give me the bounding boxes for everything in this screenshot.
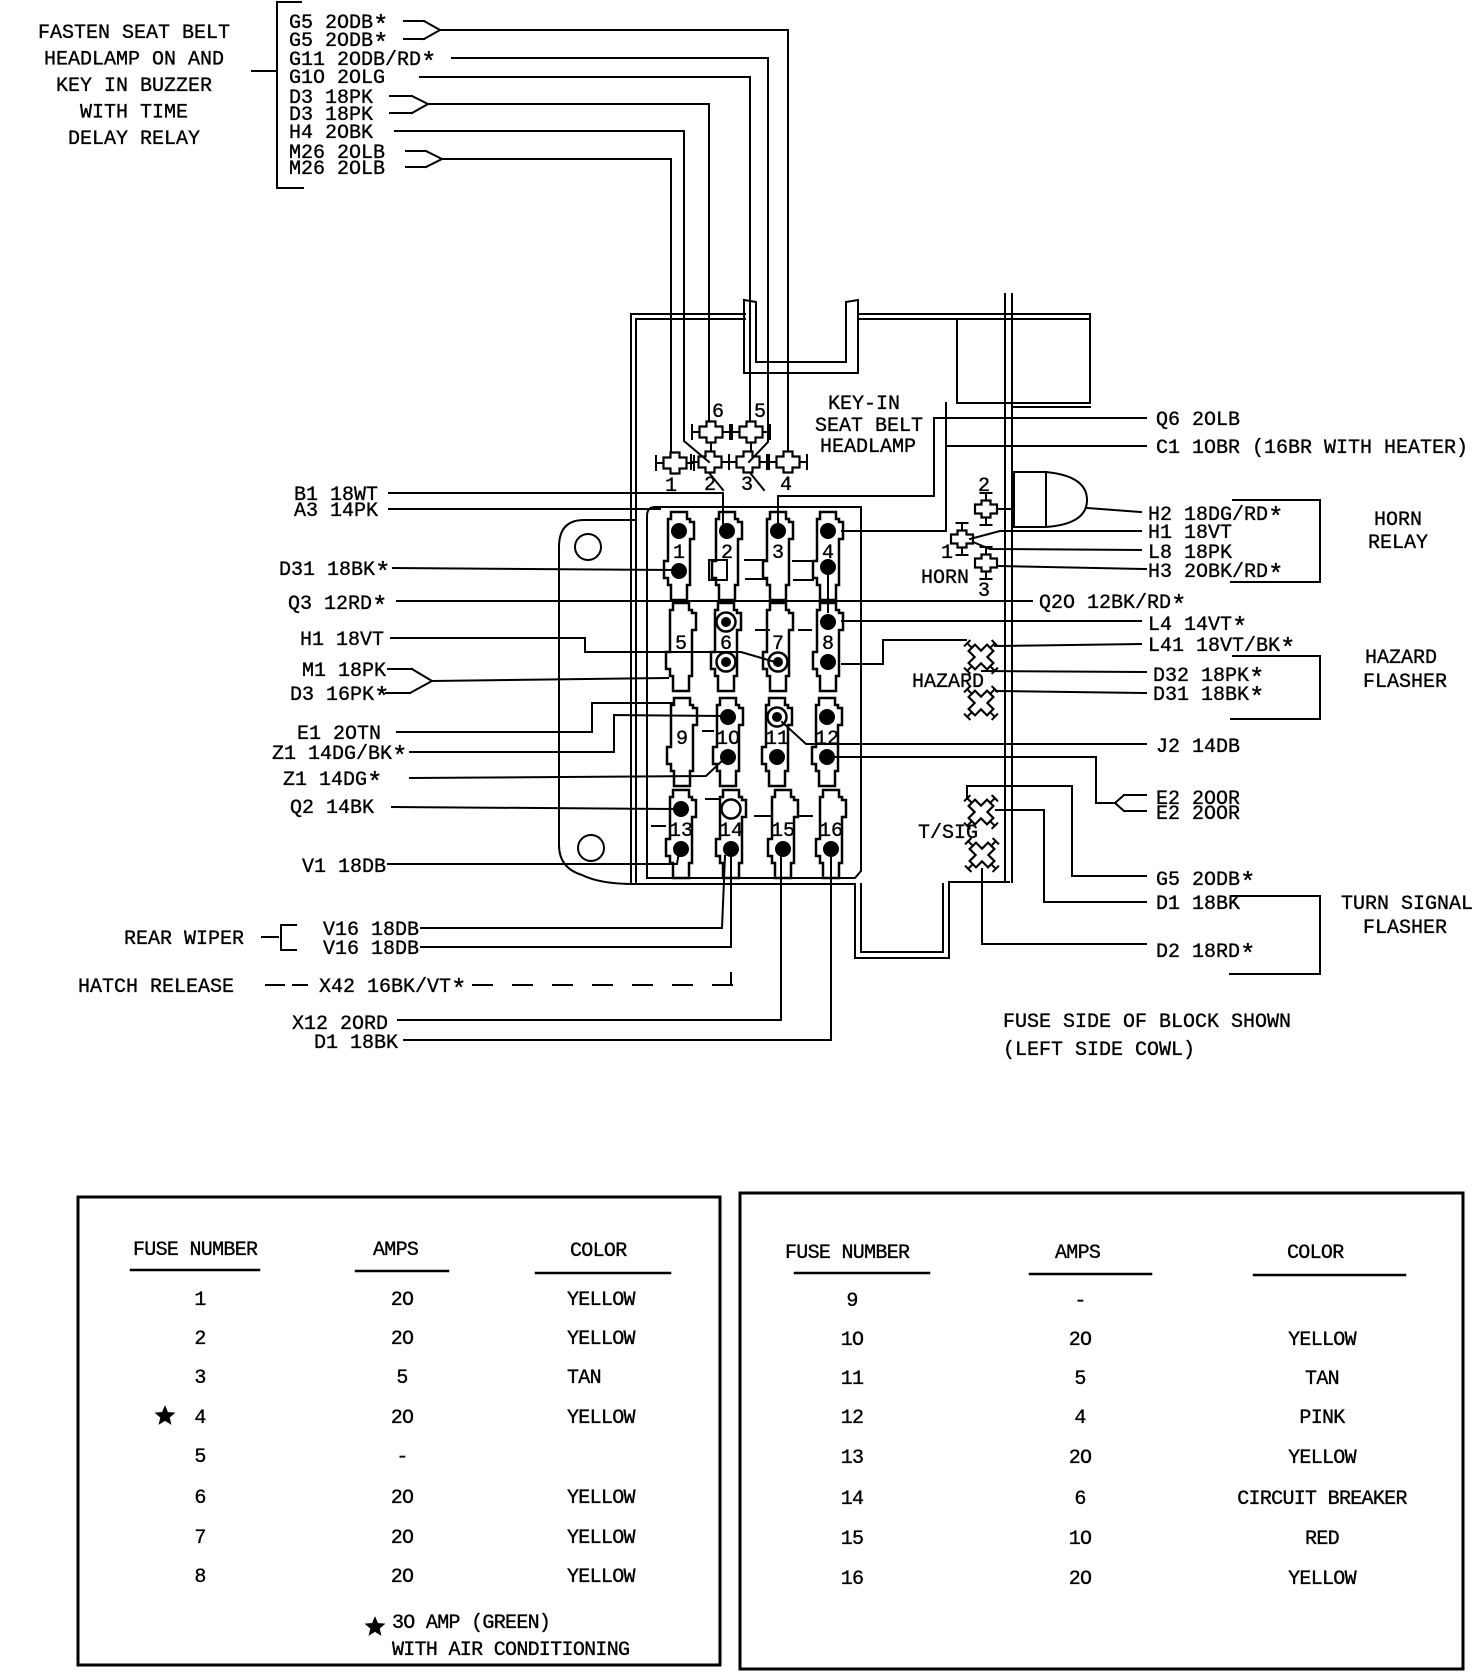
wire Z1 14DG/BK* to fuse 10 top	[410, 715, 724, 752]
wire M26 20LB pair to connector 1	[406, 151, 671, 452]
fuse 10 terminals and number	[716, 709, 740, 765]
svg-text:4: 4	[780, 474, 792, 497]
fuse 6 outline	[711, 603, 741, 691]
wire G5 20DB* right	[967, 786, 1146, 876]
connector turn signal flasher upper	[953, 784, 1008, 839]
svg-text:2: 2	[721, 542, 733, 565]
svg-text:FUSE NUMBER: FUSE NUMBER	[133, 1239, 258, 1262]
fuse 1 terminals and number	[671, 523, 687, 579]
fuse 15 terminals and number	[771, 820, 795, 857]
svg-text:YELLOW: YELLOW	[1288, 1329, 1357, 1352]
wire fuse11 top to J2 14DB	[782, 722, 1146, 744]
svg-text:13: 13	[669, 820, 693, 843]
wire Z1 14DG* to fuse 10 bottom	[410, 759, 724, 778]
svg-text:YELLOW: YELLOW	[567, 1487, 636, 1510]
wire B1 18WT to fuse 2 top	[389, 493, 723, 524]
node: TURN SIGNAL FLASHER label	[1341, 893, 1472, 940]
connector turn signal flasher lower	[954, 827, 1009, 882]
wire V16 18DB to fuse 14 a	[421, 856, 725, 928]
svg-text:Q6 2OLB: Q6 2OLB	[1156, 409, 1240, 432]
svg-text:A3 14PK: A3 14PK	[294, 500, 378, 523]
wire D31 18BK* right	[996, 691, 1146, 693]
fuse 13 terminals and number	[669, 801, 693, 857]
svg-text:YELLOW: YELLOW	[1288, 1568, 1357, 1591]
node: buzzer note text	[38, 22, 230, 151]
wire V16 18DB to fuse 14 b	[421, 856, 731, 947]
fuse 16 terminals and number	[819, 820, 843, 857]
svg-text:15: 15	[771, 820, 795, 843]
node: left wire labels B1..V1	[272, 484, 408, 879]
svg-text:12: 12	[841, 1407, 864, 1430]
svg-text:AMPS: AMPS	[1055, 1242, 1101, 1265]
svg-text:3: 3	[741, 474, 753, 497]
svg-text:1: 1	[941, 542, 953, 565]
svg-text:4: 4	[1074, 1407, 1085, 1430]
node: HORN label	[921, 567, 969, 590]
svg-text:YELLOW: YELLOW	[567, 1289, 636, 1312]
svg-text:DELAY RELAY: DELAY RELAY	[68, 128, 200, 151]
svg-text:CIRCUIT BREAKER: CIRCUIT BREAKER	[1237, 1488, 1407, 1511]
wire L41 label line	[995, 644, 1141, 646]
wire H3 20BK/RD*	[998, 566, 1146, 569]
svg-text:HEADLAMP: HEADLAMP	[820, 436, 916, 459]
fuse 8 outline	[813, 603, 843, 691]
svg-text:5: 5	[194, 1446, 205, 1469]
node: hazard bracket	[1231, 656, 1320, 719]
fuse 14 terminals and number	[719, 800, 743, 858]
connector pin 1 key-in	[656, 453, 694, 499]
svg-text:YELLOW: YELLOW	[1288, 1447, 1357, 1470]
fuse 4 outline	[813, 512, 843, 600]
wire H4 20BK to connector 2	[395, 131, 709, 462]
svg-text:2O: 2O	[1069, 1329, 1092, 1352]
fuse 2 outline	[709, 512, 742, 600]
svg-text:2: 2	[978, 475, 990, 498]
node: horn relay wire labels	[1148, 503, 1284, 590]
svg-text:7: 7	[772, 633, 784, 656]
node: HAZARD FLASHER label	[1363, 647, 1447, 694]
svg-text:16: 16	[841, 1568, 864, 1591]
node: turn signal bracket	[1230, 896, 1320, 974]
node: fuse block assembly boundary	[631, 294, 1090, 958]
svg-text:2O: 2O	[1069, 1447, 1092, 1470]
wire X42 16BK/VT* dashed	[473, 973, 732, 985]
wire Q2 14BK to fuse 13 top	[392, 807, 678, 809]
wire L8 18PK	[973, 542, 1141, 550]
fuse 3 outline	[763, 512, 793, 600]
fuse 8 terminals and number	[820, 614, 836, 670]
wire G10 20LG to connector 5	[420, 77, 750, 421]
svg-text:5: 5	[396, 1367, 407, 1390]
wire connector 5 to connector 3	[750, 443, 752, 451]
svg-text:RED: RED	[1305, 1528, 1339, 1551]
fuse 3 terminals and number	[770, 523, 786, 565]
svg-text:HAZARD: HAZARD	[912, 671, 984, 694]
node: fuse side note	[1003, 1011, 1291, 1062]
wire H2 18DG/RD*	[1087, 508, 1141, 512]
svg-text:HORN: HORN	[1374, 509, 1422, 532]
svg-text:5: 5	[754, 401, 766, 424]
svg-text:AMPS: AMPS	[373, 1239, 419, 1262]
svg-text:COLOR: COLOR	[1287, 1242, 1344, 1265]
fuse 7 terminals and number	[769, 633, 788, 672]
node: right fuse table	[740, 1193, 1463, 1669]
svg-text:YELLOW: YELLOW	[567, 1328, 636, 1351]
svg-text:FLASHER: FLASHER	[1363, 671, 1447, 694]
node: left fuse table	[78, 1197, 720, 1665]
svg-text:SEAT BELT: SEAT BELT	[815, 415, 923, 438]
svg-text:6: 6	[720, 633, 732, 656]
wire fuse12 bottom to E2 20OR pair	[836, 757, 1146, 811]
svg-text:KEY-IN: KEY-IN	[828, 393, 900, 416]
svg-text:8: 8	[822, 633, 834, 656]
wire X12 20RD to fuse 15	[398, 856, 781, 1020]
wire V1 18DB to fuse 13 bottom	[388, 852, 679, 864]
svg-text:1: 1	[194, 1289, 206, 1312]
svg-text:1: 1	[665, 475, 677, 498]
connector pin 3 horn	[975, 547, 997, 603]
svg-text:PINK: PINK	[1299, 1407, 1345, 1430]
wire D32 18PK*	[982, 671, 1146, 672]
svg-text:8: 8	[194, 1566, 205, 1589]
svg-text:2O: 2O	[391, 1527, 414, 1550]
svg-text:2: 2	[194, 1328, 205, 1351]
connector hazard flasher lower	[953, 675, 1008, 730]
connector pin 4 key-in	[769, 452, 807, 498]
svg-text:J2 14DB: J2 14DB	[1156, 736, 1240, 759]
fuse 1 outline	[664, 512, 694, 600]
svg-text:FLASHER: FLASHER	[1363, 917, 1447, 940]
svg-text:12: 12	[815, 728, 839, 751]
svg-text:KEY IN BUZZER: KEY IN BUZZER	[56, 75, 212, 98]
connector pin 2 key-in	[691, 452, 729, 498]
svg-text:2O: 2O	[391, 1328, 414, 1351]
wire E1 20TN to fuse 9 top	[397, 703, 672, 732]
svg-text:3: 3	[194, 1367, 205, 1390]
svg-text:HAZARD: HAZARD	[1365, 647, 1437, 670]
svg-text:14: 14	[719, 820, 743, 843]
wire fuse4 top to H1 18VT right	[842, 531, 1141, 539]
svg-text:14: 14	[841, 1488, 864, 1511]
fuse 5 outline	[666, 603, 696, 691]
node: fuse block mounting plate	[559, 520, 634, 884]
fuse 9 terminals and number	[676, 728, 688, 751]
svg-text:3O AMP (GREEN): 3O AMP (GREEN)	[392, 1612, 550, 1635]
node: HATCH RELEASE label	[78, 975, 467, 1005]
svg-text:YELLOW: YELLOW	[567, 1527, 636, 1550]
svg-text:FUSE SIDE OF BLOCK SHOWN: FUSE SIDE OF BLOCK SHOWN	[1003, 1011, 1291, 1034]
fuse 9 outline	[667, 698, 697, 786]
node: hazard wire labels	[1148, 613, 1296, 713]
wire connector 6 to connector 2	[710, 443, 712, 451]
svg-text:C1 1OBR (16BR WITH HEATER): C1 1OBR (16BR WITH HEATER)	[1156, 437, 1468, 460]
fuse 5 terminals and number	[675, 633, 687, 656]
wire D1 18BK right	[996, 810, 1146, 902]
svg-text:V16 18DB: V16 18DB	[323, 938, 419, 961]
svg-text:1: 1	[673, 542, 685, 565]
wire H1 18VT left to fuse 7 bottom	[391, 638, 775, 662]
svg-text:9: 9	[676, 728, 688, 751]
wire A3 14PK along panel top	[389, 508, 660, 510]
fuse 7 outline	[763, 603, 793, 691]
wire D3 18PK pair to connector 6	[390, 96, 709, 421]
node: T-SIG label	[918, 822, 978, 845]
svg-text:6: 6	[1074, 1488, 1085, 1511]
node: D1 18BK label left	[314, 1032, 398, 1055]
node: REAR WIPER label	[124, 925, 296, 951]
svg-text:TAN: TAN	[1305, 1368, 1339, 1391]
svg-text:16: 16	[819, 820, 843, 843]
svg-text:H1 18VT: H1 18VT	[300, 629, 384, 652]
wire G11 20DB/RD* to connector 3	[452, 58, 768, 462]
wire connector 3 to fuse 3	[751, 474, 778, 524]
fuse 12 outline	[812, 698, 842, 786]
svg-text:11: 11	[765, 728, 789, 751]
svg-text:(LEFT SIDE COWL): (LEFT SIDE COWL)	[1003, 1039, 1195, 1062]
connector pin 3 key-in	[729, 452, 767, 498]
svg-text:-: -	[396, 1446, 407, 1469]
fuse 10 outline	[713, 698, 743, 786]
svg-text:2O: 2O	[1069, 1568, 1092, 1591]
svg-text:3: 3	[772, 542, 784, 565]
wire C1 10BR feed	[842, 403, 1146, 664]
wire fuse8 top to L4 14VT*	[842, 620, 1141, 622]
svg-text:4: 4	[194, 1407, 205, 1430]
svg-text:HATCH RELEASE: HATCH RELEASE	[78, 976, 234, 999]
node: HAZARD label	[912, 671, 984, 694]
svg-text:V1 18DB: V1 18DB	[302, 856, 386, 879]
svg-text:13: 13	[841, 1447, 864, 1470]
svg-text:WITH AIR CONDITIONING: WITH AIR CONDITIONING	[392, 1639, 629, 1662]
node: wire group bracket	[252, 2, 303, 188]
fuse 13 outline	[666, 790, 696, 878]
svg-text:TURN SIGNAL: TURN SIGNAL	[1341, 893, 1472, 916]
svg-text:M1 18PK: M1 18PK	[302, 660, 386, 683]
svg-text:COLOR: COLOR	[570, 1240, 627, 1263]
connector pin 5 key-in	[732, 401, 770, 443]
svg-text:3: 3	[978, 580, 990, 603]
fuse 6 terminals and number	[717, 613, 736, 672]
svg-text:2O: 2O	[391, 1487, 414, 1510]
node: Q20 12BK/RD* label	[1039, 591, 1187, 621]
connector pin 6 key-in	[692, 401, 730, 443]
fuse 14 outline	[716, 790, 746, 878]
svg-text:1O: 1O	[841, 1329, 864, 1352]
fuse 15 outline	[768, 790, 798, 878]
svg-text:11: 11	[841, 1368, 864, 1391]
node: KEY-IN SEAT BELT HEADLAMP label	[815, 393, 923, 459]
wire Q3 12RD* fuse bus to Q20	[397, 600, 1032, 602]
svg-text:D1 18BK: D1 18BK	[1156, 893, 1240, 916]
svg-text:2O: 2O	[391, 1289, 414, 1312]
node: fuse panel rectangle	[647, 507, 861, 878]
svg-text:FASTEN SEAT BELT: FASTEN SEAT BELT	[38, 22, 230, 45]
fuse 12 terminals and number	[815, 709, 839, 765]
svg-text:4: 4	[822, 542, 834, 565]
svg-text:REAR WIPER: REAR WIPER	[124, 928, 244, 951]
svg-text:M26 2OLB: M26 2OLB	[289, 158, 385, 181]
svg-text:FUSE NUMBER: FUSE NUMBER	[785, 1242, 910, 1265]
node: X12 20RD label	[292, 1013, 388, 1036]
wire D1 18BK to fuse 16	[404, 856, 831, 1040]
svg-text:WITH TIME: WITH TIME	[80, 102, 188, 125]
svg-text:6: 6	[194, 1487, 205, 1510]
fuse 2 terminals and number	[719, 523, 735, 565]
svg-text:1O: 1O	[1069, 1528, 1092, 1551]
node: horn relay cavity	[1014, 472, 1087, 527]
node: left wire labels G5 G11 G10 D3 H4 M26	[289, 11, 437, 181]
wire D31 18BK* to fuse 1 bottom	[393, 568, 676, 570]
node: HORN RELAY label	[1368, 509, 1428, 555]
svg-text:15: 15	[841, 1528, 864, 1551]
fuse 16 outline	[816, 790, 846, 878]
svg-text:YELLOW: YELLOW	[567, 1407, 636, 1430]
connector hazard flasher upper	[953, 629, 1008, 684]
wire horn pin2 to relay cavity	[998, 508, 1014, 510]
svg-text:2: 2	[704, 474, 716, 497]
svg-text:-: -	[1074, 1290, 1085, 1313]
wire G5 20DB* pair to connector 4	[404, 21, 788, 451]
node: C1 10BR label	[1156, 437, 1468, 460]
node: E2 20OR labels	[1156, 788, 1240, 826]
node: bus dashes	[652, 560, 814, 826]
node: V16 labels	[323, 919, 419, 961]
connector pin 2 horn	[975, 475, 997, 525]
svg-text:RELAY: RELAY	[1368, 532, 1428, 555]
svg-text:D1 18BK: D1 18BK	[314, 1032, 398, 1055]
wire connector 2 to fuse 2	[710, 474, 723, 490]
svg-text:TAN: TAN	[567, 1367, 601, 1390]
fuse 4 terminals and number	[820, 523, 836, 575]
svg-text:2O: 2O	[391, 1566, 414, 1589]
node: J2 14DB label	[1156, 736, 1240, 759]
node: G5 D1 D2 labels	[1156, 868, 1256, 970]
svg-text:2O: 2O	[391, 1407, 414, 1430]
fuse 11 terminals and number	[765, 708, 789, 766]
fuse 11 outline	[762, 698, 792, 786]
node: horn relay bracket	[1231, 500, 1320, 582]
wire fuse8 bottom to hazard flasher	[883, 639, 966, 641]
wire fuse4 to fuse8 link	[827, 567, 829, 612]
svg-text:T/SIG: T/SIG	[918, 822, 978, 845]
svg-text:HEADLAMP ON AND: HEADLAMP ON AND	[44, 49, 224, 72]
wire Q6 20LB to fuse 3 top	[778, 418, 1146, 496]
connector pin 1 horn	[941, 523, 973, 565]
wire M1 18PK / D3 16PK* pair to fuse 5	[386, 669, 668, 693]
svg-text:1O: 1O	[716, 728, 740, 751]
svg-text:E2 2OOR: E2 2OOR	[1156, 803, 1240, 826]
svg-text:Q2 14BK: Q2 14BK	[290, 797, 374, 820]
svg-text:HORN: HORN	[921, 567, 969, 590]
svg-text:7: 7	[194, 1527, 205, 1550]
wire D2 18RD*	[982, 869, 1146, 944]
svg-text:6: 6	[712, 401, 724, 424]
svg-text:9: 9	[846, 1290, 857, 1313]
svg-text:YELLOW: YELLOW	[567, 1566, 636, 1589]
node: Q6 20LB label	[1156, 409, 1240, 432]
svg-text:5: 5	[675, 633, 687, 656]
svg-text:5: 5	[1074, 1368, 1085, 1391]
